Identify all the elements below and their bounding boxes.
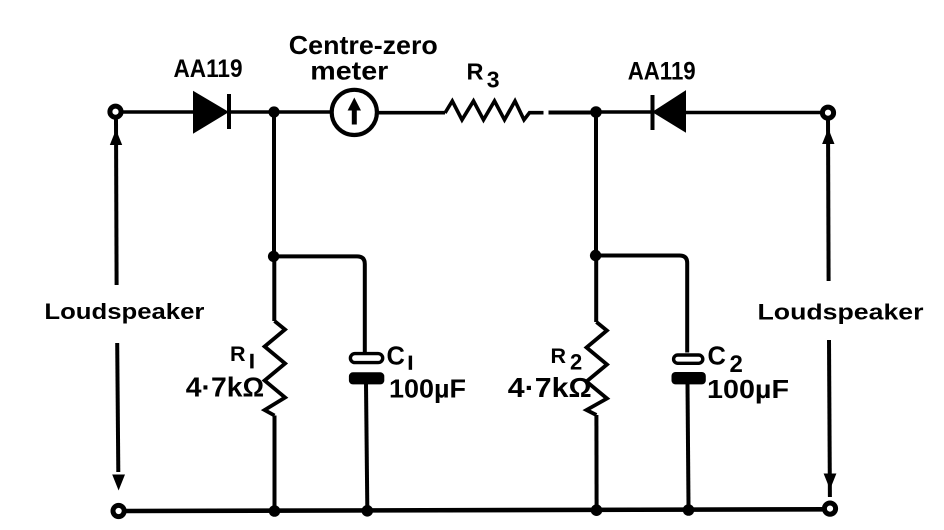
label C1 [387, 343, 413, 371]
svg-text:AA119: AA119 [628, 58, 696, 86]
resistor R3 [445, 101, 544, 120]
junction node top-left [268, 106, 279, 117]
junction node mid-left [268, 251, 279, 262]
junction node top-right [590, 106, 602, 118]
wire left rail upper [114, 120, 119, 286]
wire C2 to bottom rail [688, 384, 689, 506]
wire R2 to bottom rail [594, 415, 598, 506]
wire mid node to C1 (with corner) [274, 256, 365, 352]
wire D2 to terminal top-right [685, 111, 821, 115]
svg-text:Loudspeaker: Loudspeaker [44, 299, 205, 324]
terminal top-left [110, 106, 121, 117]
wire mid node to R2 [594, 256, 598, 323]
wire R3 to node (after small scan gap) [549, 111, 597, 115]
svg-text:R: R [230, 342, 246, 366]
resistor R2 [587, 322, 608, 415]
svg-text:100µF: 100µF [707, 374, 789, 404]
junction bottom R1 [269, 505, 281, 517]
wire right rail lower [827, 340, 832, 497]
label R3 [467, 59, 500, 93]
capacitor C1 top plate [350, 354, 382, 363]
svg-text:meter: meter [310, 56, 388, 86]
svg-text:2: 2 [570, 350, 582, 375]
wire top node to mid node (left) [272, 116, 276, 256]
terminal bottom-left [113, 505, 124, 516]
junction bottom R2 [591, 504, 603, 516]
svg-text:100µF: 100µF [389, 374, 466, 404]
svg-text:4·7kΩ: 4·7kΩ [508, 372, 592, 403]
resistor R1 [265, 321, 286, 416]
wire top node to mid node (right) [594, 116, 598, 256]
label C2 [708, 343, 743, 378]
junction node mid-right [590, 250, 601, 261]
svg-text:AA119: AA119 [174, 55, 243, 83]
wire C1 to bottom rail [366, 384, 367, 507]
diode D2 AA119 [653, 92, 686, 131]
svg-text:Loudspeaker: Loudspeaker [758, 300, 925, 325]
svg-text:R: R [467, 59, 484, 85]
wire R1 to bottom rail [273, 416, 277, 508]
svg-text:R: R [551, 344, 567, 368]
arrowhead up (right rail) [822, 129, 834, 145]
capacitor C2 bottom plate [672, 372, 706, 384]
capacitor C2 top plate [674, 355, 703, 363]
wire bottom rail [125, 509, 825, 511]
wire D1 to meter [229, 110, 332, 114]
junction bottom C1 [362, 505, 374, 517]
wire left rail lower [117, 343, 118, 472]
svg-text:C: C [387, 343, 405, 371]
wire node to D2 [596, 110, 651, 114]
wire right rail upper [826, 119, 831, 282]
diode D1 AA119 [194, 93, 229, 133]
wire top rail left (terminal to D1) [123, 110, 194, 114]
capacitor C1 bottom plate [349, 372, 384, 384]
junction bottom C2 [683, 504, 695, 516]
arrowhead up (left rail) [110, 130, 122, 146]
svg-text:3: 3 [487, 67, 500, 93]
svg-text:4·7kΩ: 4·7kΩ [186, 372, 264, 403]
terminal top-right [822, 107, 833, 118]
wire mid node to R1 [272, 256, 276, 321]
wire meter to R3 [377, 111, 445, 115]
label R1 [230, 342, 254, 368]
terminal bottom-right [824, 503, 835, 514]
svg-text:C: C [708, 343, 726, 371]
label R2 [551, 344, 583, 375]
wire mid node to C2 (with corner) [596, 256, 688, 353]
arrowhead down (right rail) [824, 474, 837, 490]
meter M1 centre-zero [332, 90, 377, 135]
arrowhead down (left rail) [112, 475, 125, 491]
